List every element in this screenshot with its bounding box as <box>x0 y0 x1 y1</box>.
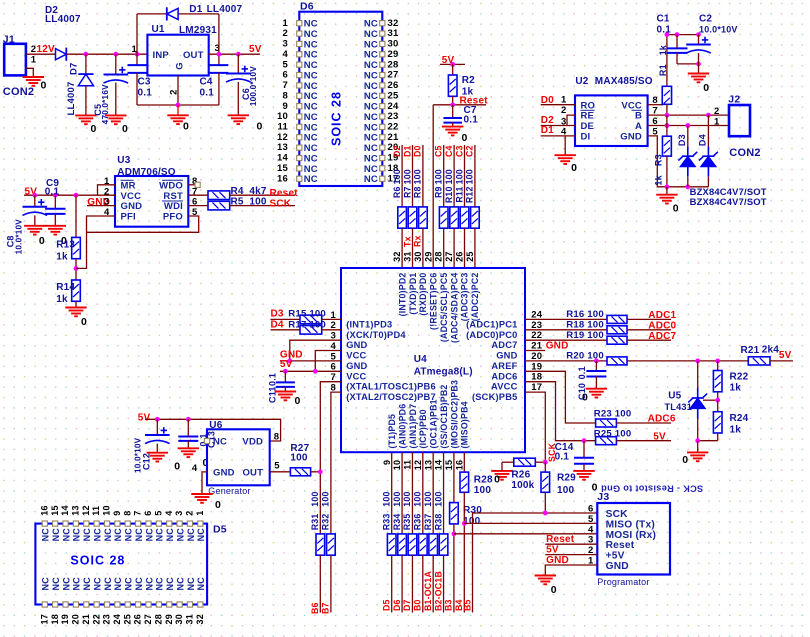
svg-text:NC: NC <box>364 91 378 102</box>
wire U4 pin14 to R38 <box>443 452 445 534</box>
svg-text:NC: NC <box>165 577 175 591</box>
svg-text:(ADC5/SCL)PC5: (ADC5/SCL)PC5 <box>439 272 449 342</box>
wire U6 OUT to R27 <box>270 471 291 473</box>
svg-text:100: 100 <box>402 169 412 184</box>
svg-text:NC: NC <box>103 528 113 542</box>
svg-text:0: 0 <box>174 461 180 473</box>
svg-text:2: 2 <box>283 28 288 39</box>
svg-text:R21: R21 <box>741 345 760 356</box>
svg-text:U6: U6 <box>209 420 222 431</box>
wire C1 C2 top node <box>667 34 699 36</box>
pin 28 of D6 <box>380 62 385 67</box>
pin 32 of D6 <box>380 21 385 26</box>
svg-text:C3: C3 <box>138 77 151 88</box>
svg-text:VCC: VCC <box>121 191 142 202</box>
svg-text:100: 100 <box>454 169 464 184</box>
svg-text:23: 23 <box>531 320 542 331</box>
IC D6 SOIC 28 socket <box>299 12 382 186</box>
ground C2 <box>688 74 709 83</box>
ground protection <box>656 195 677 204</box>
svg-text:B: B <box>635 111 642 122</box>
capacitor C4 0.1 <box>218 54 220 65</box>
pin 16 of D5 <box>42 521 47 526</box>
wire GND row pin5 <box>280 360 341 362</box>
svg-text:D1: D1 <box>189 4 202 15</box>
svg-text:GND: GND <box>346 340 367 350</box>
svg-text:D2: D2 <box>392 145 402 157</box>
pin 4 of D6 <box>297 52 302 57</box>
svg-text:1k: 1k <box>730 424 742 435</box>
ground C9 <box>45 226 66 235</box>
svg-text:1: 1 <box>195 510 205 515</box>
svg-text:R15 100: R15 100 <box>288 309 326 320</box>
svg-text:GND: GND <box>606 561 629 572</box>
svg-text:MR: MR <box>121 180 136 191</box>
resistor R13 1k <box>75 195 77 237</box>
svg-text:23: 23 <box>102 614 112 624</box>
connector J3 Programator <box>597 503 670 575</box>
svg-text:25: 25 <box>122 614 132 624</box>
svg-text:R17 100: R17 100 <box>288 319 326 330</box>
wire C2 to resistor R12 <box>474 145 476 207</box>
svg-text:17: 17 <box>531 382 542 393</box>
svg-text:NC: NC <box>51 528 61 542</box>
resistor R15 100 on PD3 <box>271 318 301 320</box>
svg-text:2: 2 <box>31 44 36 55</box>
svg-text:(ADC4/SDA)PC4: (ADC4/SDA)PC4 <box>449 272 459 343</box>
svg-text:R12: R12 <box>465 186 475 203</box>
pin 14 of D5 <box>63 521 68 526</box>
pin 18 of D6 <box>380 166 385 171</box>
svg-text:0: 0 <box>673 203 679 215</box>
svg-text:100: 100 <box>402 491 412 506</box>
svg-text:7: 7 <box>133 510 143 515</box>
svg-text:8: 8 <box>274 432 279 443</box>
svg-text:NC: NC <box>155 528 165 542</box>
svg-text:B6: B6 <box>310 602 320 614</box>
svg-text:AVCC: AVCC <box>491 382 518 392</box>
transceiver U2 MAX485/SO <box>575 95 648 146</box>
pin 14 of D6 <box>297 155 302 160</box>
pin 3 of D6 <box>297 41 302 46</box>
wire A column to R3 <box>666 115 668 136</box>
ground U2 <box>555 155 576 164</box>
svg-text:SCK: SCK <box>547 442 557 462</box>
svg-text:16: 16 <box>277 173 288 184</box>
svg-text:30: 30 <box>413 251 423 261</box>
wire R10 to U4 <box>453 228 455 268</box>
svg-text:NC: NC <box>175 577 185 591</box>
ground C6 <box>228 115 249 124</box>
svg-text:11: 11 <box>91 506 101 516</box>
wire U4 to R18 <box>525 329 607 331</box>
node R13 R14 junction <box>75 259 77 280</box>
wire U4 to R19 <box>525 339 607 341</box>
svg-text:RO: RO <box>581 100 596 111</box>
svg-text:32: 32 <box>392 251 402 261</box>
svg-text:NC: NC <box>186 528 196 542</box>
svg-text:12: 12 <box>413 460 423 470</box>
svg-text:1: 1 <box>283 18 289 29</box>
svg-text:0: 0 <box>582 392 588 404</box>
resistor R24 1k <box>717 400 719 412</box>
svg-text:R14: R14 <box>56 282 75 293</box>
wire U4 pin16 to R28 <box>463 452 465 472</box>
resistor R27 100 <box>290 468 310 476</box>
svg-text:NC: NC <box>103 577 113 591</box>
capacitor C10 0.1 <box>595 361 597 371</box>
svg-text:D6: D6 <box>392 599 402 611</box>
svg-text:10: 10 <box>277 111 288 122</box>
wire J1 pin1 to ground <box>26 68 33 77</box>
svg-text:27: 27 <box>444 251 454 261</box>
svg-text:R34: R34 <box>392 514 402 531</box>
svg-text:10: 10 <box>392 460 402 470</box>
svg-text:GND: GND <box>546 555 569 566</box>
svg-text:VCC: VCC <box>621 100 642 111</box>
svg-text:5V: 5V <box>653 431 666 442</box>
svg-text:B7: B7 <box>321 602 331 614</box>
svg-text:A: A <box>635 121 642 132</box>
pin 15 of D6 <box>297 166 302 171</box>
svg-text:U4: U4 <box>414 354 427 365</box>
svg-text:15: 15 <box>444 460 454 470</box>
svg-text:100: 100 <box>321 491 331 506</box>
svg-text:R23 100: R23 100 <box>594 409 632 420</box>
wire AREF node <box>525 360 607 362</box>
svg-text:31: 31 <box>185 614 195 624</box>
diode D7 LL4007 <box>85 54 87 74</box>
pin 19 of D6 <box>380 155 385 160</box>
net label GND at U3 pin3 <box>87 205 115 207</box>
wire to net label D7 <box>411 555 413 612</box>
svg-text:D4: D4 <box>698 134 708 146</box>
svg-text:OUT: OUT <box>242 468 263 479</box>
resistor R25 100 <box>596 437 617 445</box>
wire J1 pin2 to D2 <box>26 53 56 55</box>
svg-text:(MOSI/OC2)PB3: (MOSI/OC2)PB3 <box>449 380 459 449</box>
pin 30 of D6 <box>380 41 385 46</box>
wire J3 SCK row to net B5 <box>473 513 598 613</box>
svg-text:GND: GND <box>121 201 143 212</box>
svg-text:J3: J3 <box>597 491 609 503</box>
pin 29 of D6 <box>380 52 385 57</box>
svg-text:C5: C5 <box>434 145 444 157</box>
svg-text:D4: D4 <box>271 319 284 330</box>
svg-text:26: 26 <box>133 614 143 624</box>
svg-text:SOIC 28: SOIC 28 <box>70 554 125 568</box>
wire U4 pin11 to R35 <box>411 452 413 534</box>
resistor R28 100 <box>460 472 469 492</box>
svg-text:2: 2 <box>561 105 566 116</box>
svg-text:14: 14 <box>434 460 444 470</box>
resistor R18 100 <box>607 326 627 334</box>
shunt reference U5 TL431 <box>697 361 699 388</box>
svg-text:0: 0 <box>551 584 557 596</box>
pin 13 of D5 <box>73 521 78 526</box>
svg-text:LL4007: LL4007 <box>45 14 81 25</box>
wire D0 to resistor R8 <box>422 145 424 207</box>
svg-text:100: 100 <box>413 491 423 506</box>
resistor R30 100 <box>450 503 459 524</box>
svg-text:NC: NC <box>82 528 92 542</box>
svg-text:(SS/OC1B)PB2: (SS/OC1B)PB2 <box>439 385 449 449</box>
svg-text:3: 3 <box>283 39 288 50</box>
svg-text:NC: NC <box>304 19 318 30</box>
svg-text:NC: NC <box>304 70 318 81</box>
pin 5 of D5 <box>156 521 161 526</box>
svg-text:5: 5 <box>153 510 163 515</box>
ground U5 <box>687 452 708 461</box>
svg-text:NC: NC <box>364 60 378 71</box>
svg-text:Tx: Tx <box>402 236 412 247</box>
svg-text:D7: D7 <box>69 62 80 75</box>
svg-text:R29: R29 <box>557 473 576 484</box>
svg-text:15: 15 <box>50 505 60 515</box>
svg-text:20: 20 <box>71 614 81 624</box>
svg-text:R8: R8 <box>413 186 423 198</box>
wire Reset node <box>433 104 486 106</box>
wire R8 to U4 <box>422 228 424 268</box>
svg-text:0: 0 <box>462 132 468 144</box>
wire D2 to U1 INP <box>66 53 147 55</box>
svg-text:(RXD)PD0: (RXD)PD0 <box>418 273 428 316</box>
svg-text:(XTAL1/TOSC1)PB6: (XTAL1/TOSC1)PB6 <box>346 382 436 392</box>
svg-text:NC: NC <box>92 577 102 591</box>
ground C14 <box>573 471 594 480</box>
svg-text:GND: GND <box>213 468 235 479</box>
net label GND on pin21 <box>525 350 545 352</box>
svg-text:0: 0 <box>81 316 87 328</box>
svg-text:NC: NC <box>186 577 196 591</box>
pin 7 of D6 <box>297 83 302 88</box>
svg-text:2: 2 <box>714 106 719 117</box>
resistor R10 100 <box>450 207 459 228</box>
ground C12 <box>147 453 168 462</box>
svg-text:13: 13 <box>423 460 433 470</box>
svg-text:29: 29 <box>423 251 433 261</box>
wire divider tap to U3 PFI <box>76 216 115 268</box>
svg-text:26: 26 <box>454 251 464 261</box>
pin 27 of D6 <box>380 72 385 77</box>
svg-text:5: 5 <box>274 460 280 471</box>
svg-text:GND: GND <box>496 351 517 361</box>
svg-text:0: 0 <box>703 82 709 94</box>
wire J3 Reset row <box>545 543 597 545</box>
svg-text:NC: NC <box>304 50 318 61</box>
svg-text:NC: NC <box>364 19 378 30</box>
diode D1 LL4007 bypass loop <box>137 13 167 15</box>
capacitor C14 0.1 <box>583 441 585 458</box>
svg-text:Rx: Rx <box>413 235 423 247</box>
pin 12 of D5 <box>84 521 89 526</box>
pin 17 of D5 <box>42 602 47 607</box>
resistor R5 100 on WDI <box>188 205 208 207</box>
svg-text:NC: NC <box>113 528 123 542</box>
pin 31 of D6 <box>380 31 385 36</box>
pin 8 of D6 <box>297 93 302 98</box>
svg-text:B0: B0 <box>413 599 423 611</box>
svg-text:R16 100: R16 100 <box>566 309 604 320</box>
wire U4 pin8 PB7 <box>331 392 341 534</box>
svg-text:10.0*10V: 10.0*10V <box>699 25 738 35</box>
svg-text:(INT1)PD3: (INT1)PD3 <box>346 319 392 329</box>
svg-text:100: 100 <box>249 196 267 207</box>
svg-text:Programator: Programator <box>597 577 649 587</box>
pin 20 of D6 <box>380 145 385 150</box>
wire U2 DI to ground <box>564 136 566 155</box>
pin 32 of D5 <box>198 602 203 607</box>
resistor R31 100 on PB6 <box>319 472 321 534</box>
svg-text:22: 22 <box>388 122 399 133</box>
svg-text:PFI: PFI <box>121 212 136 223</box>
wire J3 GND row <box>545 565 597 576</box>
capacitor C13 0.1 <box>187 419 189 436</box>
svg-text:R20 100: R20 100 <box>566 351 604 362</box>
wire U3 PFO loop <box>87 216 199 232</box>
svg-text:15: 15 <box>277 163 288 174</box>
svg-text:1k: 1k <box>56 294 68 305</box>
ground R26 <box>491 471 512 480</box>
svg-text:7: 7 <box>652 106 657 117</box>
svg-text:(TXD)PD1: (TXD)PD1 <box>408 273 418 315</box>
svg-text:NC: NC <box>155 577 165 591</box>
svg-text:NC: NC <box>61 528 71 542</box>
pin 30 of D5 <box>177 602 182 607</box>
wire J3 5V row <box>545 554 597 556</box>
wire 5V stub <box>440 63 465 65</box>
svg-text:NC: NC <box>92 528 102 542</box>
svg-text:CON2: CON2 <box>3 86 34 98</box>
svg-text:10.0*10V: 10.0*10V <box>134 437 143 473</box>
ground C10 <box>586 389 607 398</box>
svg-text:R33: R33 <box>382 514 392 531</box>
svg-text:NC: NC <box>82 577 92 591</box>
svg-text:12: 12 <box>277 132 288 143</box>
svg-text:0.1: 0.1 <box>45 186 60 197</box>
svg-text:NC: NC <box>304 164 318 175</box>
pin 25 of D6 <box>380 93 385 98</box>
svg-text:0: 0 <box>257 121 263 133</box>
svg-text:28: 28 <box>434 251 444 261</box>
svg-text:R4: R4 <box>231 186 244 197</box>
pin 5 of D6 <box>297 62 302 67</box>
wire U6 GND to ground <box>202 472 207 494</box>
svg-text:6: 6 <box>143 510 153 515</box>
regulator U1 LM2931 <box>147 35 208 76</box>
svg-text:NC: NC <box>165 528 175 542</box>
pin 6 of D6 <box>297 72 302 77</box>
svg-text:100: 100 <box>392 491 402 506</box>
svg-text:Reset: Reset <box>270 188 299 199</box>
svg-text:20: 20 <box>531 351 542 362</box>
pin 26 of D5 <box>136 602 141 607</box>
svg-text:(ADC3)PC3: (ADC3)PC3 <box>460 272 470 321</box>
svg-text:23: 23 <box>388 111 399 122</box>
ground U6 <box>191 494 212 503</box>
wire U4 pin10 to R34 <box>401 452 403 534</box>
ground C11 <box>275 392 296 401</box>
wire C4 to resistor R10 <box>453 145 455 207</box>
svg-text:100: 100 <box>392 169 402 184</box>
zener D4 BZX84C4V7 <box>707 115 709 146</box>
svg-text:29: 29 <box>164 614 174 624</box>
wire U4 pin19 ADC6 <box>525 371 596 423</box>
capacitor C3 0.1 <box>136 54 138 65</box>
wire U4 to R16 <box>525 318 607 320</box>
wire C5 to resistor R9 <box>443 145 445 207</box>
wire C1 bottom link <box>677 63 699 65</box>
svg-text:OUT: OUT <box>183 50 204 61</box>
resistor R14 1k <box>72 280 81 301</box>
svg-text:(INT0)PD2: (INT0)PD2 <box>398 273 408 317</box>
wire to net label B0 <box>422 555 424 612</box>
wire D2 to U2 DE <box>541 125 575 127</box>
svg-text:INP: INP <box>153 50 170 61</box>
svg-text:G: G <box>175 62 186 70</box>
svg-text:(SCK)PB5: (SCK)PB5 <box>472 392 518 402</box>
wire R6 to U4 <box>401 228 403 268</box>
svg-text:(ICP)PB0: (ICP)PB0 <box>418 409 428 448</box>
svg-text:NC: NC <box>364 29 378 40</box>
svg-text:SCK - Resistot to Gnd: SCK - Resistot to Gnd <box>601 484 703 494</box>
svg-text:D5: D5 <box>382 599 392 611</box>
svg-text:VCC: VCC <box>346 371 366 381</box>
svg-text:8: 8 <box>652 95 657 106</box>
svg-text:21: 21 <box>81 614 91 624</box>
svg-text:100: 100 <box>423 491 433 506</box>
wire Reset down to U4 pin29 <box>432 105 434 268</box>
svg-text:0: 0 <box>183 121 189 133</box>
svg-text:0: 0 <box>295 395 301 407</box>
svg-text:5: 5 <box>283 59 289 70</box>
svg-text:RE: RE <box>581 111 595 122</box>
ground C5 <box>105 115 126 124</box>
svg-text:D6: D6 <box>300 0 314 12</box>
svg-text:WDO: WDO <box>159 180 183 191</box>
svg-text:100.0*10V: 100.0*10V <box>249 66 258 106</box>
svg-text:16: 16 <box>39 505 49 515</box>
pin 24 of D5 <box>115 602 120 607</box>
wire C3 to resistor R11 <box>464 145 466 207</box>
ground loop under U1 <box>137 104 219 106</box>
svg-text:Reset: Reset <box>606 540 635 551</box>
svg-text:22: 22 <box>91 614 101 624</box>
svg-text:NC: NC <box>364 39 378 50</box>
svg-text:NC: NC <box>134 577 144 591</box>
svg-text:ADC6: ADC6 <box>648 414 676 425</box>
svg-text:27: 27 <box>143 614 153 624</box>
svg-text:ADC6: ADC6 <box>491 371 517 381</box>
svg-text:21: 21 <box>388 132 399 143</box>
capacitor C5 470.0*16V <box>115 54 117 74</box>
supervisor U3 ADM706/SO <box>115 176 188 227</box>
node R30 to J3 MOSI row <box>452 531 457 536</box>
svg-text:25: 25 <box>388 90 399 101</box>
pin 16 of D6 <box>297 176 302 181</box>
wire U4 pin13 to R37 <box>432 452 434 534</box>
svg-text:NC: NC <box>364 143 378 154</box>
svg-text:R26: R26 <box>511 470 530 481</box>
svg-text:7: 7 <box>283 80 288 91</box>
svg-text:5V: 5V <box>138 413 151 424</box>
svg-text:C4: C4 <box>200 77 213 88</box>
svg-text:ATmega8(L): ATmega8(L) <box>414 366 473 377</box>
svg-text:0: 0 <box>122 123 128 135</box>
svg-text:14: 14 <box>277 153 288 164</box>
svg-text:11: 11 <box>278 122 289 133</box>
IC D5 SOIC 28 socket <box>35 524 207 605</box>
